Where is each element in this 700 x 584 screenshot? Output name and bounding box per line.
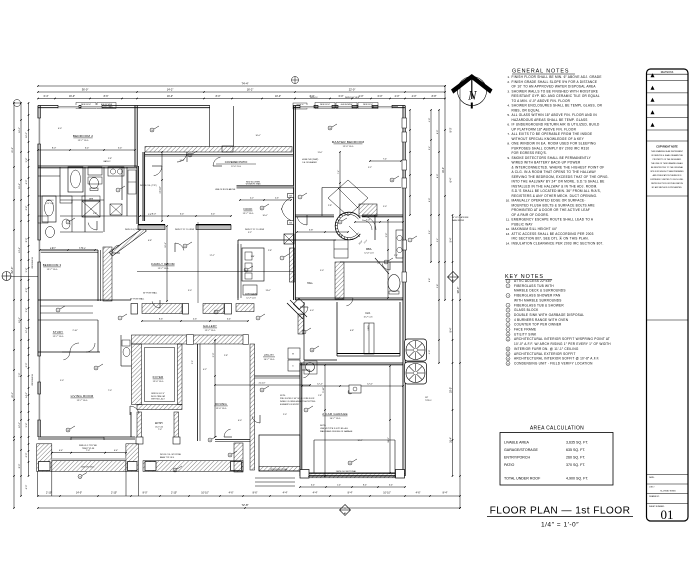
svg-text:8′-0″: 8′-0″ [437,130,439,134]
svg-text:7: 7 [282,258,283,260]
svg-text:5′-4″: 5′-4″ [450,237,453,242]
svg-text:2 CAR GARAGE: 2 CAR GARAGE [322,412,348,416]
svg-text:5: 5 [300,197,301,199]
svg-text:5′-10″: 5′-10″ [323,387,325,393]
svg-text:12′-0″ CLG: 12′-0″ CLG [343,146,354,148]
svg-text:DOUBLE SINK WITH GARBAGE DISPO: DOUBLE SINK WITH GARBAGE DISPOSAL [514,313,584,317]
svg-text:ALL GLASS WITHIN 18″ ABOVE FIN: ALL GLASS WITHIN 18″ ABOVE FIN. FLOOR AN… [512,113,598,117]
svg-text:2′-10″: 2′-10″ [72,330,77,332]
svg-text:8′-4″: 8′-4″ [443,492,448,495]
svg-text:S/W: S/W [251,256,255,258]
svg-text:13: 13 [189,155,191,157]
svg-text:7′-0″: 7′-0″ [366,220,371,222]
svg-text:5′-4″: 5′-4″ [26,423,28,428]
svg-text:AREA CALCULATION: AREA CALCULATION [530,426,584,432]
svg-text:FAMILY ROOM: FAMILY ROOM [151,262,175,266]
svg-text:DINING: DINING [215,402,227,406]
svg-text:5′-4″: 5′-4″ [429,146,431,150]
svg-text:0: 0 [556,0,558,1]
svg-text:MBA.: MBA. [366,248,372,251]
svg-text:KITCHEN: KITCHEN [245,292,257,296]
svg-text:GENERAL NOTES: GENERAL NOTES [512,69,569,75]
svg-text:21′-10″: 21′-10″ [259,383,266,385]
svg-text:4′-0″: 4′-0″ [26,485,28,490]
svg-text:2′-8″: 2′-8″ [339,235,343,237]
svg-text:2′-8″: 2′-8″ [224,355,228,357]
svg-text:3.: 3. [507,89,510,93]
svg-text:AND PUBLICATION THEREOF IS: AND PUBLICATION THEREOF IS [653,174,683,177]
svg-text:7′-0″: 7′-0″ [108,390,112,392]
svg-text:MIRR 10′-0″x7′-6″: MIRR 10′-0″x7′-6″ [151,393,165,395]
svg-text:10′-7″ CLG: 10′-7″ CLG [330,418,341,420]
svg-text:4′-6″: 4′-6″ [416,492,421,495]
svg-text:4′-2″: 4′-2″ [250,198,254,200]
svg-text:12′-0″: 12′-0″ [19,422,21,428]
svg-text:3′-0″: 3′-0″ [188,290,192,292]
svg-text:FLOOR PLAN — 1st FLOOR: FLOOR PLAN — 1st FLOOR [490,506,631,517]
svg-text:15: 15 [349,463,351,465]
svg-text:8′-4″: 8′-4″ [450,327,453,332]
svg-text:FOYER: FOYER [153,375,164,379]
svg-text:3′-8″: 3′-8″ [309,230,314,232]
svg-text:6′-4″: 6′-4″ [227,319,231,321]
svg-text:36′-0″: 36′-0″ [82,88,89,92]
svg-text:4′-4″: 4′-4″ [313,492,318,495]
svg-text:01: 01 [661,507,674,522]
svg-text:13′-0″: 13′-0″ [265,290,270,292]
svg-text:12′-7″ CLG: 12′-7″ CLG [243,213,254,215]
svg-text:ARCHITECTURAL INTERIOR SOFFIT: ARCHITECTURAL INTERIOR SOFFIT W/SPRING P… [514,337,610,341]
svg-text:ATTIC ACCESS SHALL BE ACCORDIN: ATTIC ACCESS SHALL BE ACCORDING PER 2003 [512,232,594,236]
svg-text:6′-4″: 6′-4″ [450,177,453,182]
svg-text:WIRED WITH BATTERY BACK-UP POW: WIRED WITH BATTERY BACK-UP POWER [512,161,581,165]
svg-text:THIS DRAWING IS AN INSTRUMENT: THIS DRAWING IS AN INSTRUMENT [651,150,684,153]
svg-text:WDW 72 TO T.O. WDW: WDW 72 TO T.O. WDW [175,229,194,231]
svg-text:16′-0″: 16′-0″ [26,132,28,138]
svg-text:BATH 2: BATH 2 [104,160,112,163]
svg-text:RIBS, OR EQUAL: RIBS, OR EQUAL [512,108,540,112]
svg-text:3: 3 [118,190,119,192]
svg-text:FIBERGLASS TUB & SHOWER: FIBERGLASS TUB & SHOWER [514,303,564,307]
svg-text:9.: 9. [507,156,510,160]
svg-text:10′-7″ CLG: 10′-7″ CLG [364,316,373,318]
svg-text:4′-0″: 4′-0″ [412,95,417,98]
svg-text:13: 13 [229,455,231,457]
svg-text:1/4″ = 1′-0″: 1/4″ = 1′-0″ [541,522,579,529]
svg-text:MAXIMUM SILL HEIGHT 44″: MAXIMUM SILL HEIGHT 44″ [512,227,558,231]
svg-text:COUNTER TOP PER OWNER: COUNTER TOP PER OWNER [514,323,562,327]
svg-text:BATH 3: BATH 3 [47,199,55,202]
svg-text:2′-0″: 2′-0″ [213,353,215,358]
svg-text:7068: 7068 [289,196,292,198]
svg-text:NOTE:: NOTE: [280,395,286,397]
svg-text:11: 11 [339,222,341,224]
svg-text:WDW 5040 SH: WDW 5040 SH [32,374,34,386]
svg-text:ATTIC ACCESS 22″x30″: ATTIC ACCESS 22″x30″ [514,279,553,283]
svg-text:REGISTERS & ANY OTHER MECH. DU: REGISTERS & ANY OTHER MECH. DUCT OPENING… [512,194,598,198]
svg-text:635 SQ. FT.: 635 SQ. FT. [566,448,585,452]
svg-text:4′-0″: 4′-0″ [429,118,431,122]
svg-text:16′-4″: 16′-4″ [450,437,453,443]
svg-text:13.: 13. [506,232,510,236]
svg-text:6′-4″: 6′-4″ [85,148,90,150]
svg-text:17′-2″: 17′-2″ [209,255,214,257]
svg-text:WDW CLG (TEMP): WDW CLG (TEMP) [125,229,141,231]
svg-text:2: 2 [386,262,387,264]
svg-text:ARCHITECTURAL EXTERIOR SOFFIT: ARCHITECTURAL EXTERIOR SOFFIT [514,352,576,356]
svg-text:1′-4″: 1′-4″ [337,485,341,487]
svg-text:2′-8″: 2′-8″ [437,284,439,288]
svg-text:MANUALLY OPERATED EDGE OR SURF: MANUALLY OPERATED EDGE OR SURFACE- [512,199,586,203]
svg-text:LINEN: LINEN [368,325,370,331]
svg-text:HAZARDOUS AREAS SHALL BE TEMP.: HAZARDOUS AREAS SHALL BE TEMP. GLASS [512,118,588,122]
svg-text:7068: 7068 [289,223,292,225]
svg-text:2′-0″: 2′-0″ [359,95,364,98]
svg-text:62′-0″: 62′-0″ [10,267,14,274]
svg-text:5′-2″: 5′-2″ [368,167,372,169]
svg-text:FIBERGLASS TUB WITH: FIBERGLASS TUB WITH [514,284,554,288]
svg-text:14.: 14. [506,241,510,245]
svg-text:10′-0″: 10′-0″ [262,215,267,217]
svg-text:370 SQ. FT.: 370 SQ. FT. [566,463,585,467]
svg-text:2′-0″: 2′-0″ [395,95,400,98]
svg-text:6′-4″: 6′-4″ [26,206,28,211]
svg-text:WOOD TRIM CAP: WOOD TRIM CAP [151,395,166,398]
svg-text:38′-0″: 38′-0″ [456,287,460,294]
svg-text:10.: 10. [506,199,510,203]
svg-text:10′-0″ A.F.F. W/ ARCH RISING 1: 10′-0″ A.F.F. W/ ARCH RISING 1″ PER EVER… [514,342,611,346]
svg-text:16′-2″: 16′-2″ [247,88,254,92]
svg-text:9: 9 [58,310,59,312]
svg-text:260 SQ. FT.: 260 SQ. FT. [566,456,585,460]
svg-text:6′-4″: 6′-4″ [59,450,63,452]
svg-text:PROPERTY OF THE DESIGNER.: PROPERTY OF THE DESIGNER. [653,159,682,161]
svg-text:16070 OH. SECTIONAL: 16070 OH. SECTIONAL [336,470,356,473]
svg-text:REVISIONS: REVISIONS [661,72,674,74]
svg-text:6′-4″: 6′-4″ [180,214,185,216]
svg-text:9: 9 [306,410,307,412]
svg-text:FINISH GRADE SHALL SLOPE 5% FO: FINISH GRADE SHALL SLOPE 5% FOR A DISTAN… [512,80,598,84]
svg-text:11: 11 [184,246,186,248]
svg-text:6′-8″: 6′-8″ [148,240,152,242]
svg-text:THE USE OF THIS DRAWING SHALL: THE USE OF THIS DRAWING SHALL [651,162,683,165]
svg-text:5′-0″: 5′-0″ [192,360,194,364]
svg-text:2′-0″: 2′-0″ [283,414,287,416]
svg-text:SHOWER ENCLOSURES SHALL BE TEM: SHOWER ENCLOSURES SHALL BE TEMPL GLASS, … [512,104,603,108]
svg-text:5′-0″: 5′-0″ [383,206,387,208]
svg-text:6.: 6. [507,123,510,127]
svg-text:12′-0″: 12′-0″ [367,384,373,386]
svg-text:ENTRY: ENTRY [155,423,163,425]
svg-text:5′-4″: 5′-4″ [429,230,431,234]
svg-text:2′-6″: 2′-6″ [394,255,398,257]
svg-text:JOB #:: JOB #: [649,487,655,489]
svg-text:WOOD COL. W/ STONE: WOOD COL. W/ STONE [160,454,182,456]
svg-text:5′-0″: 5′-0″ [52,248,56,250]
svg-text:10′-10″: 10′-10″ [201,492,209,495]
svg-text:8′-6″: 8′-6″ [104,95,109,98]
svg-text:12′-6″: 12′-6″ [165,242,167,248]
svg-text:A CLG. IN A ROOM THAT OPENS TO: A CLG. IN A ROOM THAT OPENS TO THE HALLW… [512,170,597,174]
svg-text:BEDROOM 3: BEDROOM 3 [43,263,62,267]
svg-text:OF SERVICE & SHALL REMAIN THE: OF SERVICE & SHALL REMAIN THE [651,154,684,157]
svg-text:8′-8″: 8′-8″ [432,95,437,98]
svg-text:DRAWN BY:: DRAWN BY: [649,495,660,498]
svg-text:16′-8″: 16′-8″ [179,160,184,162]
svg-text:5/8″: 5/8″ [425,397,428,399]
svg-text:WDW 10′-0″ HDR: WDW 10′-0″ HDR [345,97,360,99]
svg-text:6′-8″: 6′-8″ [429,278,431,282]
svg-text:14: 14 [329,128,331,130]
svg-text:5′-0″: 5′-0″ [60,380,64,382]
svg-text:8′-0″: 8′-0″ [216,95,221,98]
svg-text:36″ PONY WALL: 36″ PONY WALL [130,298,144,301]
svg-text:17′-10″: 17′-10″ [160,186,162,193]
svg-text:30′-0″: 30′-0″ [450,387,453,393]
svg-text:ENTRY/PORCH: ENTRY/PORCH [504,456,530,460]
svg-text:12′-7″ CLG: 12′-7″ CLG [205,330,216,332]
svg-text:6′-0″: 6′-0″ [58,128,62,130]
svg-text:6: 6 [246,270,247,272]
svg-text:7.: 7. [507,132,510,136]
svg-text:1: 1 [304,332,305,334]
svg-text:W/SELF CLOSING HINGE, TIGHT FI: W/SELF CLOSING HINGE, TIGHT FITTING [280,401,316,403]
svg-text:10′-0″: 10′-0″ [275,95,281,98]
svg-text:12′-7″ CLG: 12′-7″ CLG [246,297,256,299]
svg-text:10′-7″ CLG: 10′-7″ CLG [264,359,275,361]
svg-text:10: 10 [311,350,313,352]
svg-text:4 BURNERS RANGE WITH OVEN: 4 BURNERS RANGE WITH OVEN [514,318,569,322]
svg-text:12: 12 [261,208,263,210]
svg-text:WND 41.5 TYP/ WD: WND 41.5 TYP/ WD [79,445,98,447]
svg-text:MARBLE DECK & SURROUNDS: MARBLE DECK & SURROUNDS [514,289,566,293]
svg-text:12′-7″ CLG: 12′-7″ CLG [78,140,89,142]
svg-text:11′-0″: 11′-0″ [318,152,323,154]
svg-text:10′-10″: 10′-10″ [383,492,391,495]
svg-text:STUDY: STUDY [53,330,63,334]
svg-text:12′-0″ CLG: 12′-0″ CLG [231,166,241,168]
svg-text:6′-0″: 6′-0″ [429,198,431,202]
svg-text:SHOWER WALLS TO BE FINISHED WI: SHOWER WALLS TO BE FINISHED WITH MOISTUR… [512,89,599,93]
svg-text:8′-0″: 8′-0″ [143,492,148,495]
svg-text:26′-0″: 26′-0″ [12,392,14,398]
svg-text:ONE WINDOW IN EA. ROOM USED FO: ONE WINDOW IN EA. ROOM USED FOR SLEEPING [512,142,597,146]
svg-text:FOR EGRESS REQ′S.: FOR EGRESS REQ′S. [512,151,548,155]
svg-text:12′-4″: 12′-4″ [26,327,28,333]
svg-text:8′-0″: 8′-0″ [152,214,157,216]
svg-text:4: 4 [68,222,69,224]
svg-text:RESISTANT GYP. BD. AND CERAMIC: RESISTANT GYP. BD. AND CERAMIC TILE OR E… [512,94,600,98]
svg-text:22′-0″: 22′-0″ [349,88,356,92]
svg-text:4.: 4. [507,104,510,108]
svg-text:INTO THE HALLWAY BY 24″ OR MOR: INTO THE HALLWAY BY 24″ OR MORE, S.D.′S … [512,180,605,184]
svg-text:W/ WDW FX TRAN: W/ WDW FX TRAN [246,183,261,186]
svg-text:2′-10″: 2′-10″ [171,492,177,495]
svg-text:EXPRESSLY LIMITED TO SUCH USE.: EXPRESSLY LIMITED TO SUCH USE. [651,179,684,181]
svg-text:12′-0″ CLG: 12′-0″ CLG [364,252,374,254]
svg-text:7′-0″: 7′-0″ [19,373,21,378]
svg-text:14′-0″: 14′-0″ [76,492,82,495]
svg-text:MASTER BEDROOM: MASTER BEDROOM [332,140,365,144]
svg-text:12.: 12. [506,227,510,231]
svg-text:TYPE X: TYPE X [425,400,432,402]
svg-text:4′-0″: 4′-0″ [429,350,431,354]
svg-text:UTILITY SINK: UTILITY SINK [514,332,537,336]
svg-text:1.: 1. [507,75,510,79]
svg-text:8080 OH. SECT.: 8080 OH. SECT. [81,467,95,469]
svg-text:TO A MIN. 4′-0″ ABOVE FIN. FLO: TO A MIN. 4′-0″ ABOVE FIN. FLOOR [512,99,571,103]
svg-text:8′-4″: 8′-4″ [363,485,367,487]
svg-text:6′-0″: 6′-0″ [26,453,28,458]
svg-text:N-17836 TKMG: N-17836 TKMG [660,491,676,493]
svg-text:2: 2 [410,240,411,242]
svg-text:N: N [467,89,477,103]
svg-text:PUBLIC WAY: PUBLIC WAY [512,222,534,226]
svg-text:4′-8″: 4′-8″ [79,248,83,250]
svg-text:14: 14 [151,130,153,132]
svg-text:12′-0″ CLG: 12′-0″ CLG [153,381,164,383]
svg-text:FINISH FLOOR SHALL BE MIN. 6″: FINISH FLOOR SHALL BE MIN. 6″ ABOVE ADJ.… [512,75,602,79]
svg-text:WDW 10′: WDW 10′ [310,97,318,99]
svg-text:INSTALLED IN THE HALLWAY & IN: INSTALLED IN THE HALLWAY & IN THE ADJ. R… [512,184,598,188]
svg-text:NOOK: NOOK [243,207,252,211]
svg-text:WITH 5/8 SECTIONAL: WITH 5/8 SECTIONAL [270,468,287,471]
svg-text:W: W [292,354,294,356]
svg-text:FACE FRAME: FACE FRAME [514,328,536,332]
svg-text:3′-6″: 3′-6″ [386,233,388,238]
svg-text:5′-4″: 5′-4″ [26,158,28,163]
svg-text:1′-8″: 1′-8″ [318,395,322,397]
svg-text:6′-0″: 6′-0″ [238,420,242,422]
svg-text:COVERED PATIO: COVERED PATIO [225,160,248,164]
svg-text:WDW 5040 SH: WDW 5040 SH [32,257,34,269]
svg-text:12′-2″: 12′-2″ [317,384,323,386]
svg-text:4′-4″: 4′-4″ [283,492,288,495]
svg-text:2′-10″: 2′-10″ [111,492,117,495]
svg-text:8′-6″: 8′-6″ [253,492,258,495]
svg-text:8′-0″: 8′-0″ [437,174,439,178]
svg-text:2′-8″: 2′-8″ [108,158,112,160]
svg-text:WOOD COL. (TYP): WOOD COL. (TYP) [140,185,157,187]
svg-text:12′-7″ CLG: 12′-7″ CLG [47,269,58,271]
svg-text:36″ PONY WALL: 36″ PONY WALL [143,292,157,295]
svg-text:INSULATION CLEARANCE PER 2003: INSULATION CLEARANCE PER 2003 IRC SECTIO… [512,241,604,245]
svg-text:WITHOUT SPECIAL KNOWLEDGE OF A: WITHOUT SPECIAL KNOWLEDGE OF A KEY [512,137,585,141]
svg-text:11: 11 [261,390,263,392]
svg-text:HALL: HALL [307,282,313,285]
svg-text:12′-7″ CLG: 12′-7″ CLG [158,268,169,270]
svg-text:GLASS BLOCK: GLASS BLOCK [514,308,539,312]
svg-text:SERVING THE BEDROOM, EXCEEDS T: SERVING THE BEDROOM, EXCEEDS THAT OF THE… [512,175,609,179]
svg-text:MOUNTED FLUSH BOLTS & SURFACE: MOUNTED FLUSH BOLTS & SURFACE BOLTS ARE [512,203,595,207]
svg-text:COPYRIGHT NOTE: COPYRIGHT NOTE [656,146,678,149]
svg-text:72′-8″: 72′-8″ [241,503,248,507]
svg-text:IRC SECTION 807, SEE DTL Ⓐ ON: IRC SECTION 807, SEE DTL Ⓐ ON THIS PLAN. [512,236,589,241]
svg-text:4′-6″: 4′-6″ [193,319,197,321]
svg-text:LINE OF ROOF ABOVE: LINE OF ROOF ABOVE [215,188,236,191]
svg-text:6′-8″: 6′-8″ [350,330,354,332]
svg-text:OF 10′ TO AN APPROVED WATER DI: OF 10′ TO AN APPROVED WATER DISPOSAL ARE… [512,85,597,89]
svg-text:8′-6″: 8′-6″ [159,319,163,321]
svg-text:7′-4″: 7′-4″ [383,159,387,161]
svg-text:10′-2″: 10′-2″ [357,440,362,442]
svg-text:9′-4″: 9′-4″ [437,238,439,242]
svg-text:3′-6″: 3′-6″ [93,213,97,215]
svg-text:BEDROOM 2: BEDROOM 2 [73,134,93,138]
svg-text:10′-0″: 10′-0″ [255,135,260,137]
svg-text:ELEMENTS OF ENTRY: ELEMENTS OF ENTRY [280,404,300,406]
svg-text:CONDENSING UNIT - FIELD VERIFY: CONDENSING UNIT - FIELD VERIFY LOCATION [514,361,593,365]
svg-text:PATIO: PATIO [504,463,514,467]
svg-text:16′-0″: 16′-0″ [19,127,21,133]
svg-text:2′-10″: 2′-10″ [46,492,52,495]
svg-text:LIVABLE AREA: LIVABLE AREA [504,441,530,445]
svg-text:12′-7″ CLG: 12′-7″ CLG [77,400,88,402]
svg-text:8: 8 [258,318,259,320]
svg-text:EMERGENCY ESCAPE ROUTE SHALL L: EMERGENCY ESCAPE ROUTE SHALL LEAD TO A [512,218,594,222]
svg-text:GALLERY: GALLERY [203,324,217,328]
svg-text:14′-0″: 14′-0″ [26,392,28,398]
svg-text:BE RESTRICTED TO THE ORIGINAL: BE RESTRICTED TO THE ORIGINAL [651,166,683,169]
svg-text:11.: 11. [506,218,510,222]
svg-text:16′-2″: 16′-2″ [442,167,445,173]
svg-text:ALL EXITS TO BE OPERABLE FROM: ALL EXITS TO BE OPERABLE FROM THE INSIDE [512,132,593,136]
svg-text:WASH DRYER: WASH DRYER [452,219,465,222]
svg-text:FIBERGLASS SHOWER PAN: FIBERGLASS SHOWER PAN [514,294,561,298]
svg-text:PRE. FLUTED 1 3/4″ SOLID CORE: PRE. FLUTED 1 3/4″ SOLID CORE DOOR [280,398,315,400]
svg-text:11: 11 [95,368,97,370]
svg-text:& INTERCONNECTED. WHERE THE HI: & INTERCONNECTED. WHERE THE HIGHEST POIN… [512,165,605,169]
svg-text:6′-4″: 6′-4″ [114,450,118,452]
svg-text:13: 13 [79,476,81,478]
svg-text:2′-8″: 2′-8″ [328,205,332,207]
svg-text:74′-4″: 74′-4″ [241,82,248,86]
svg-text:PURPOSES SHALL COMPLY BY 2003: PURPOSES SHALL COMPLY BY 2003 IRC R310 [512,146,590,150]
svg-text:USE 5/8 TYPE X GYP. BD. ALL: USE 5/8 TYPE X GYP. BD. ALL [320,427,349,430]
svg-text:6′-4″: 6′-4″ [44,95,49,98]
svg-text:5′-8″: 5′-8″ [148,214,152,216]
svg-text:7′-4″: 7′-4″ [338,170,340,174]
svg-text:21′-8″: 21′-8″ [12,147,14,153]
svg-text:12′-0″ CLG: 12′-0″ CLG [216,408,227,410]
svg-text:WITH TILE—ACT: WITH TILE—ACT [151,398,164,401]
svg-text:4′-6″: 4′-6″ [229,492,234,495]
svg-text:5′-4″: 5′-4″ [118,148,123,150]
svg-text:7′-0″: 7′-0″ [158,429,162,431]
svg-text:SITE FOR WHICH IT WAS PREPARED: SITE FOR WHICH IT WAS PREPARED [650,170,684,173]
svg-text:4′-0″: 4′-0″ [310,310,314,312]
svg-text:6′-0″: 6′-0″ [339,95,344,98]
svg-text:S.D.′S SHALL BE LOCATED MIN. 3: S.D.′S SHALL BE LOCATED MIN. 36″ FROM AL… [512,189,602,193]
svg-text:CLO.: CLO. [365,312,371,315]
svg-text:BY ANY METHOD IS PROHIBITED.: BY ANY METHOD IS PROHIBITED. [652,186,683,189]
svg-text:12′-7″ CLG: 12′-7″ CLG [53,336,64,338]
svg-text:3,635 SQ. FT.: 3,635 SQ. FT. [566,441,588,445]
svg-text:GARAGE/STORAGE: GARAGE/STORAGE [504,448,538,452]
svg-text:WITH MARBLE SURROUNDS: WITH MARBLE SURROUNDS [514,298,562,302]
svg-text:OF A PAIR OF DOORS.: OF A PAIR OF DOORS. [512,213,550,217]
svg-text:54″ LD″ PLATFORM: 54″ LD″ PLATFORM [452,216,469,219]
svg-text:O.H. DR HEADER: O.H. DR HEADER [302,161,317,164]
svg-text:WALLS AND CEILING OF GARAGE: WALLS AND CEILING OF GARAGE [320,430,353,433]
svg-text:6′-0″: 6′-0″ [378,95,383,98]
svg-text:WDW 72 TO T.O. WDW: WDW 72 TO T.O. WDW [245,229,264,231]
svg-text:14′-2″: 14′-2″ [167,88,174,92]
svg-text:NOTE:: NOTE: [320,425,327,427]
svg-text:8′-4″: 8′-4″ [348,492,353,495]
svg-text:4′-6″: 4′-6″ [275,198,279,200]
svg-text:8.: 8. [507,142,510,146]
